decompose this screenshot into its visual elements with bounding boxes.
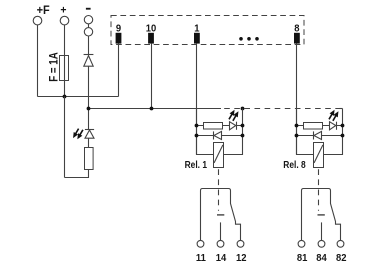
svg-text:Rel. 8: Rel. 8 xyxy=(283,159,305,171)
rel8 junction dots row1 xyxy=(295,124,299,128)
rel1 freewheel diode triangle xyxy=(214,131,222,139)
rel8 freewheel diode triangle xyxy=(314,131,322,139)
wire resistor down xyxy=(65,170,89,178)
rel8 LED arrows xyxy=(327,109,341,123)
bus junction dot rel1 xyxy=(241,107,245,111)
rel1 row1 wire xyxy=(197,125,243,127)
rel1 NO fixed contact bar xyxy=(217,214,224,216)
terminal - wire xyxy=(88,36,90,55)
svg-text:Rel. 1: Rel. 1 xyxy=(185,159,208,171)
rel1 contact bracket and blade xyxy=(201,189,241,241)
terminal +F circle xyxy=(33,16,42,25)
rel8 terminal circle 82 xyxy=(337,240,344,247)
pin 8 xyxy=(294,33,300,44)
svg-text:82: 82 xyxy=(336,252,347,264)
LED D1 arrows xyxy=(71,127,85,140)
terminal + wire descend xyxy=(64,97,66,178)
rel1 terminal circle 11 xyxy=(197,240,204,247)
terminal + circle xyxy=(60,16,69,25)
terminal +F wire xyxy=(37,25,39,97)
pin 9 wire xyxy=(118,44,120,97)
ellipsis pins 2..7 xyxy=(239,37,243,41)
LED D1 cathode bar xyxy=(85,129,94,131)
terminal + wire upper xyxy=(64,25,66,56)
pin 1 wire xyxy=(196,44,198,155)
terminal + wire lower xyxy=(64,81,66,97)
connector box (dashed) xyxy=(111,16,304,45)
resistor R1 xyxy=(85,148,94,170)
rel8 row2 wire xyxy=(297,135,343,137)
svg-text:10: 10 xyxy=(146,23,157,35)
rel8 row1 wire xyxy=(297,125,343,127)
svg-text:+F: +F xyxy=(37,5,50,17)
pin 10 xyxy=(148,33,154,44)
diode V1 cathode bar xyxy=(84,54,94,56)
rel1 junction dots row2 xyxy=(195,134,199,138)
svg-text:81: 81 xyxy=(297,252,308,264)
svg-text:9: 9 xyxy=(116,23,122,35)
rel8 LED triangle xyxy=(330,122,336,130)
rel1 row2 wire xyxy=(197,135,243,137)
LED D1 triangle xyxy=(85,130,94,138)
junction dot + rail xyxy=(63,95,67,99)
rel8 mechanical link (dashed) xyxy=(318,169,320,211)
rel8 coil xyxy=(314,143,324,168)
rel1 mechanical link (dashed) xyxy=(218,169,220,211)
rel8 terminal 84 lead xyxy=(321,222,323,240)
bus junction dot pin10 xyxy=(150,107,154,111)
rel1 terminal 14 lead xyxy=(220,222,222,240)
rel8 LED cathode bar xyxy=(336,122,338,130)
rel1 LED cathode bar xyxy=(236,122,238,130)
svg-text:12: 12 xyxy=(236,252,247,264)
rel8 right vertical xyxy=(324,109,343,155)
svg-text:F = 1A: F = 1A xyxy=(48,52,61,82)
pin 9 xyxy=(116,33,122,44)
svg-text:14: 14 xyxy=(216,252,227,264)
rel1 terminal circle 12 xyxy=(237,240,244,247)
svg-text:84: 84 xyxy=(316,252,327,264)
pin 1 xyxy=(194,33,200,44)
fuse F1 through-wire xyxy=(64,56,66,81)
rel1 coil xyxy=(214,143,224,168)
rel1 right vertical xyxy=(224,109,243,155)
rel8 resistor xyxy=(304,123,323,130)
diode V1 triangle xyxy=(84,56,93,67)
pin 10 wire xyxy=(151,44,153,109)
rel8 terminal circle 81 xyxy=(298,240,305,247)
bus junction dot minus xyxy=(87,107,91,111)
svg-text:+: + xyxy=(60,4,66,16)
wire LED to resistor xyxy=(88,138,90,147)
rel1 terminal circle 14 xyxy=(217,240,224,247)
terminal - label xyxy=(86,8,91,10)
terminal - circle lower xyxy=(84,28,92,36)
terminal - circle upper xyxy=(84,16,92,24)
rel1 LED triangle xyxy=(230,122,236,130)
rel8 freewheel diode bar xyxy=(313,131,315,139)
rel1 resistor xyxy=(204,123,223,130)
svg-text:1: 1 xyxy=(194,23,200,35)
rel1 left vertical xyxy=(197,109,214,155)
upper rail wire (+F to pin9) xyxy=(38,96,119,98)
rel8 left vertical xyxy=(297,109,314,155)
bus wire solid part xyxy=(89,108,222,110)
rel1 junction dots row1 xyxy=(195,124,199,128)
rel8 terminal circle 84 xyxy=(318,240,325,247)
rel1 coil diagonal xyxy=(214,145,223,163)
bus end segment xyxy=(340,108,343,110)
svg-text:8: 8 xyxy=(294,23,300,35)
bus wire dashed part xyxy=(224,108,342,110)
terminal - link wire xyxy=(88,24,90,28)
fuse F1 body xyxy=(60,56,69,81)
svg-text:11: 11 xyxy=(196,252,206,264)
rel8 contact bracket and blade xyxy=(302,189,341,241)
pin 8 wire xyxy=(296,44,298,155)
rel8 coil diagonal xyxy=(314,145,323,163)
rel1 freewheel diode bar xyxy=(213,131,215,139)
rel8 junction dots row2 xyxy=(295,134,299,138)
minus wire down to LED xyxy=(88,66,90,129)
rel8 NO fixed contact bar xyxy=(318,214,325,216)
rel1 LED arrows xyxy=(227,109,241,123)
